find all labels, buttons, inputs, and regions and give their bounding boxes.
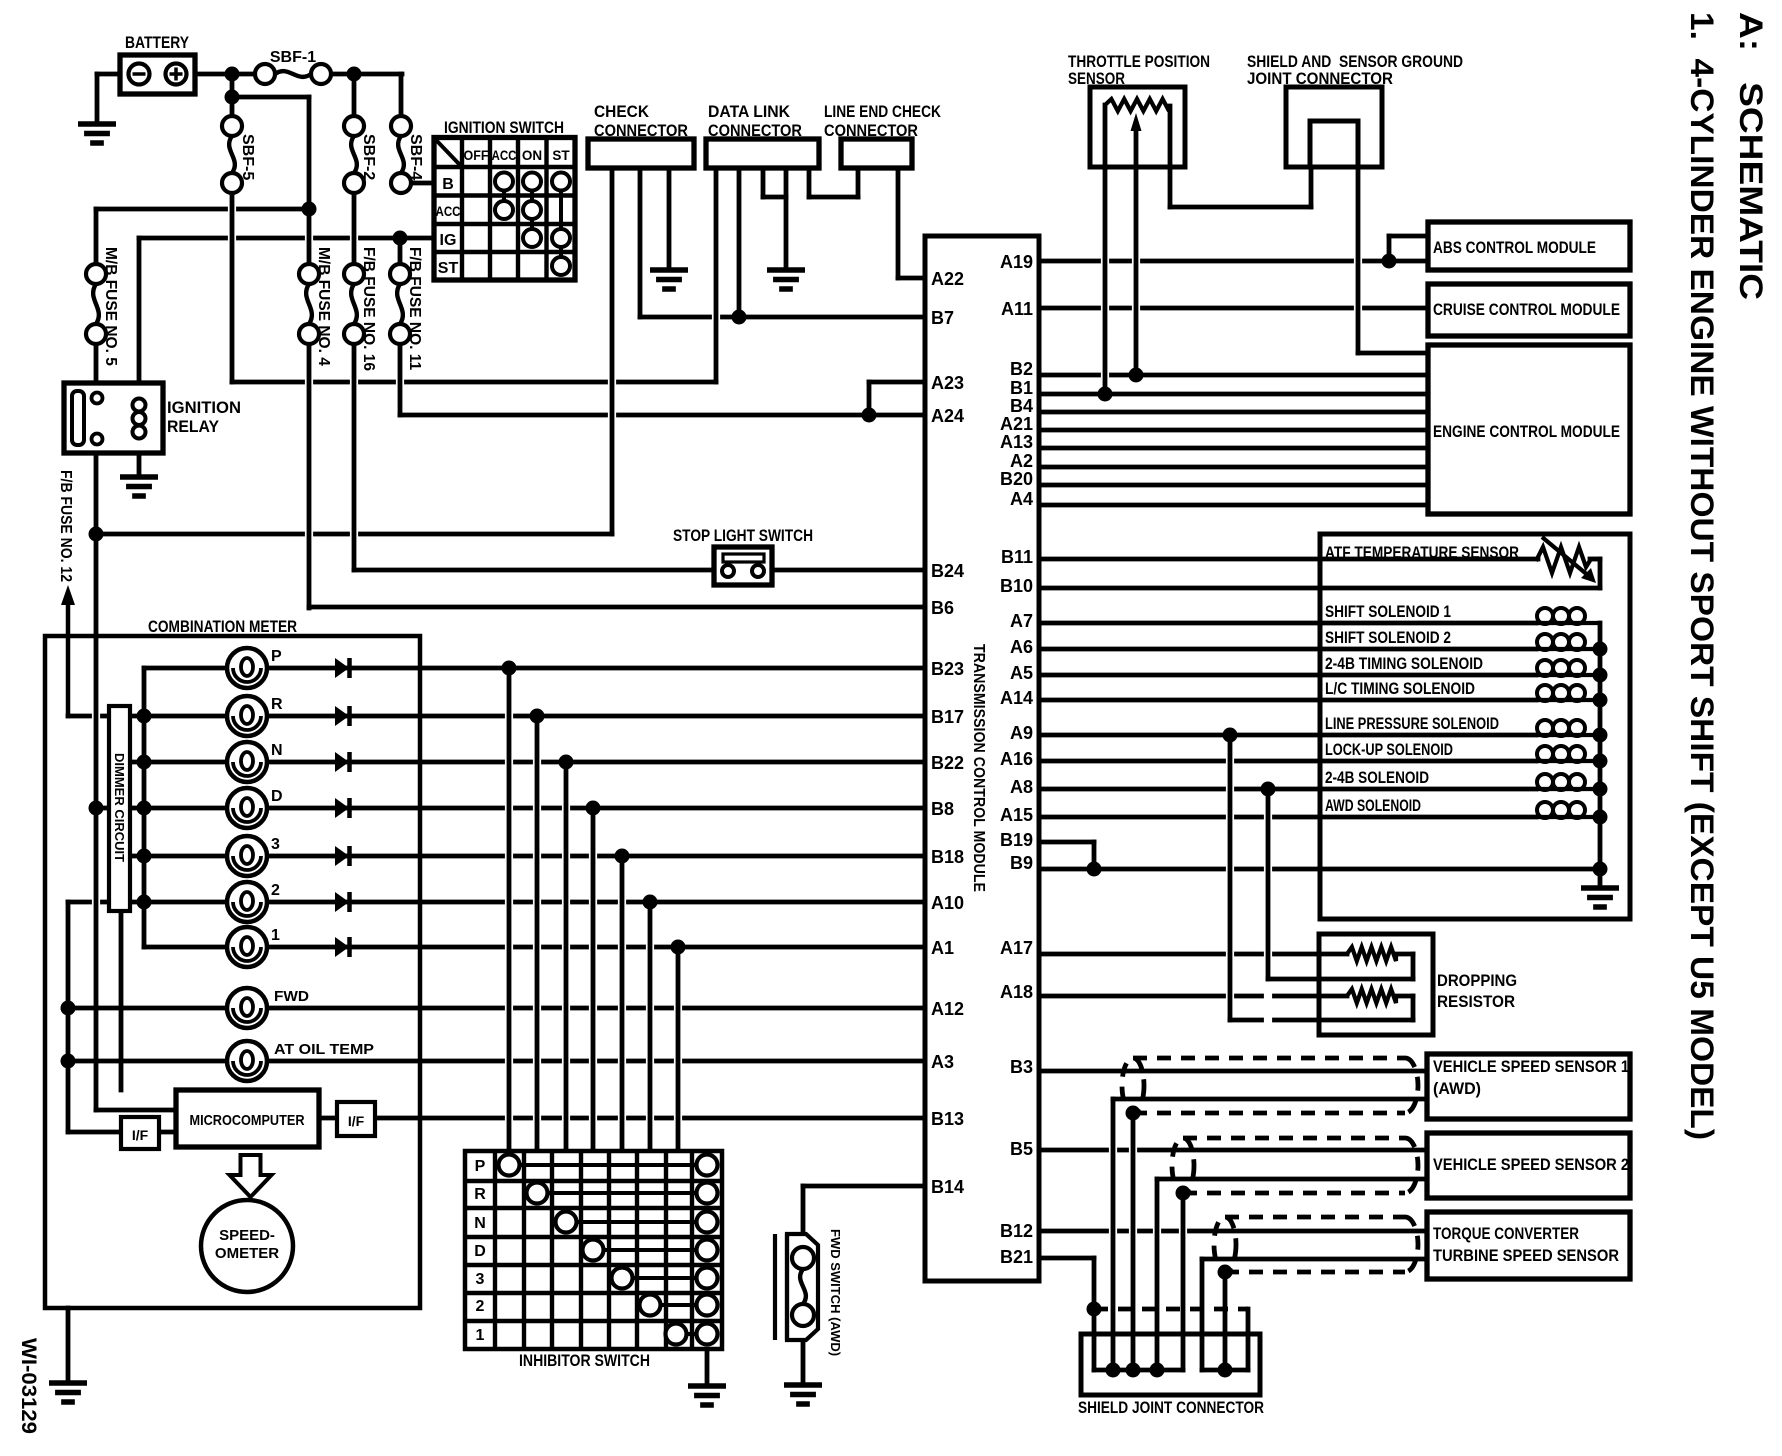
svg-text:F/B FUSE NO. 11: F/B FUSE NO. 11 [406,247,423,371]
svg-text:D: D [474,1243,486,1260]
svg-text:DIMMER CIRCUIT: DIMMER CIRCUIT [112,753,127,862]
svg-text:2-4B SOLENOID: 2-4B SOLENOID [1325,768,1429,787]
svg-text:B10: B10 [1000,576,1033,596]
svg-text:ST: ST [438,260,459,277]
svg-text:A22: A22 [931,269,964,289]
svg-text:INHIBITOR SWITCH: INHIBITOR SWITCH [519,1351,650,1370]
svg-text:AT OIL TEMP: AT OIL TEMP [274,1041,374,1058]
svg-text:B6: B6 [931,598,954,618]
svg-text:ATF TEMPERATURE SENSOR: ATF TEMPERATURE SENSOR [1325,543,1519,562]
svg-text:COMBINATION METER: COMBINATION METER [148,617,297,636]
svg-text:B9: B9 [1010,853,1033,873]
svg-text:OFF: OFF [464,148,489,163]
svg-text:B18: B18 [931,847,964,867]
svg-text:(AWD): (AWD) [1433,1079,1481,1098]
svg-text:SBF-4: SBF-4 [407,134,424,180]
svg-text:AWD SOLENOID: AWD SOLENOID [1325,796,1421,815]
svg-text:TURBINE SPEED SENSOR: TURBINE SPEED SENSOR [1433,1246,1619,1265]
svg-text:CONNECTOR: CONNECTOR [824,121,918,140]
svg-text:ACC: ACC [492,148,517,163]
svg-text:A8: A8 [1010,777,1033,797]
svg-text:A7: A7 [1010,611,1033,631]
svg-text:F/B FUSE NO. 16: F/B FUSE NO. 16 [360,247,377,371]
svg-text:A16: A16 [1000,749,1033,769]
svg-text:CRUISE CONTROL MODULE: CRUISE CONTROL MODULE [1433,300,1620,319]
svg-text:LOCK-UP SOLENOID: LOCK-UP SOLENOID [1325,740,1453,759]
svg-text:SBF-1: SBF-1 [270,49,316,66]
svg-text:A14: A14 [1000,688,1033,708]
svg-text:A19: A19 [1000,252,1033,272]
svg-text:SHIFT SOLENOID 2: SHIFT SOLENOID 2 [1325,628,1451,647]
svg-text:A17: A17 [1000,938,1033,958]
svg-text:F/B FUSE NO. 12: F/B FUSE NO. 12 [57,470,74,582]
svg-text:RELAY: RELAY [167,417,220,436]
svg-text:I/F: I/F [132,1127,149,1143]
svg-text:B1: B1 [1010,378,1033,398]
svg-text:A5: A5 [1010,663,1033,683]
svg-text:1: 1 [271,927,280,944]
svg-text:M/B FUSE NO. 5: M/B FUSE NO. 5 [102,247,119,366]
svg-text:LINE PRESSURE SOLENOID: LINE PRESSURE SOLENOID [1325,714,1499,733]
svg-text:ENGINE CONTROL MODULE: ENGINE CONTROL MODULE [1433,422,1620,441]
svg-text:IGNITION SWITCH: IGNITION SWITCH [444,118,564,137]
svg-text:FWD: FWD [274,988,309,1005]
svg-text:SBF-5: SBF-5 [239,134,256,180]
svg-text:A21: A21 [1000,414,1033,434]
svg-text:B11: B11 [1001,547,1033,567]
svg-text:A2: A2 [1010,451,1033,471]
svg-text:A11: A11 [1001,299,1033,319]
svg-text:SHIELD JOINT CONNECTOR: SHIELD JOINT CONNECTOR [1078,1398,1264,1417]
svg-text:SHIFT SOLENOID 1: SHIFT SOLENOID 1 [1325,602,1451,621]
svg-text:TORQUE CONVERTER: TORQUE CONVERTER [1433,1224,1579,1243]
svg-text:CONNECTOR: CONNECTOR [594,121,688,140]
svg-text:D: D [271,788,283,805]
svg-text:VEHICLE SPEED SENSOR 1: VEHICLE SPEED SENSOR 1 [1433,1057,1629,1076]
svg-text:B20: B20 [1000,469,1033,489]
svg-text:VEHICLE SPEED SENSOR 2: VEHICLE SPEED SENSOR 2 [1433,1155,1629,1174]
svg-text:ACC: ACC [436,204,461,219]
svg-text:A3: A3 [931,1052,954,1072]
svg-text:FWD SWITCH (AWD): FWD SWITCH (AWD) [828,1229,843,1356]
svg-text:OMETER: OMETER [215,1245,279,1262]
svg-text:B8: B8 [931,799,954,819]
svg-text:LINE END CHECK: LINE END CHECK [824,102,942,121]
svg-text:N: N [474,1215,486,1232]
svg-text:B19: B19 [1000,830,1033,850]
svg-text:A18: A18 [1000,982,1033,1002]
svg-text:P: P [475,1158,486,1175]
svg-text:WI-03129: WI-03129 [17,1338,40,1434]
svg-text:IGNITION: IGNITION [167,398,241,417]
svg-text:CONNECTOR: CONNECTOR [708,121,802,140]
svg-text:BATTERY: BATTERY [125,33,190,52]
svg-text:A4: A4 [1010,489,1033,509]
svg-text:A24: A24 [931,406,964,426]
svg-text:B21: B21 [1000,1247,1033,1267]
svg-text:B5: B5 [1010,1139,1033,1159]
svg-text:DATA LINK: DATA LINK [708,102,791,121]
svg-text:B23: B23 [931,659,964,679]
svg-text:1: 1 [476,1327,485,1344]
svg-text:2-4B TIMING SOLENOID: 2-4B TIMING SOLENOID [1325,654,1483,673]
svg-text:2: 2 [271,882,280,899]
svg-text:RESISTOR: RESISTOR [1437,992,1515,1011]
svg-text:TRANSMISSION CONTROL MODULE: TRANSMISSION CONTROL MODULE [970,644,987,892]
svg-text:B14: B14 [931,1177,964,1197]
svg-text:A10: A10 [931,893,964,913]
svg-text:SPEED-: SPEED- [219,1227,275,1244]
svg-text:A1: A1 [931,938,954,958]
svg-text:3: 3 [476,1271,485,1288]
svg-text:A15: A15 [1000,805,1033,825]
svg-text:B13: B13 [931,1109,964,1129]
svg-text:SBF-2: SBF-2 [360,134,377,180]
svg-text:R: R [271,696,283,713]
svg-text:B: B [442,176,454,193]
svg-text:B4: B4 [1010,396,1033,416]
svg-text:B24: B24 [931,561,964,581]
svg-text:MICROCOMPUTER: MICROCOMPUTER [190,1112,305,1129]
svg-text:M/B FUSE NO. 4: M/B FUSE NO. 4 [315,247,332,366]
svg-text:B22: B22 [931,753,964,773]
svg-text:ON: ON [522,148,542,163]
svg-text:CHECK: CHECK [594,102,650,121]
svg-text:STOP LIGHT SWITCH: STOP LIGHT SWITCH [673,526,813,545]
svg-text:B2: B2 [1010,359,1033,379]
svg-text:N: N [271,742,283,759]
svg-text:3: 3 [271,836,280,853]
svg-text:R: R [474,1186,486,1203]
svg-text:B12: B12 [1000,1221,1033,1241]
svg-text:1. 4-CYLINDER ENGINE WITHOUT: 1. 4-CYLINDER ENGINE WITHOUT SPORT SHIFT… [1684,12,1720,1140]
svg-text:ABS CONTROL MODULE: ABS CONTROL MODULE [1433,238,1596,257]
svg-text:L/C TIMING SOLENOID: L/C TIMING SOLENOID [1325,679,1475,698]
svg-text:DROPPING: DROPPING [1437,971,1517,990]
svg-text:ST: ST [552,148,570,163]
svg-text:P: P [271,648,282,665]
svg-text:A12: A12 [931,999,964,1019]
svg-text:B17: B17 [931,707,964,727]
svg-text:A23: A23 [931,373,964,393]
svg-text:A: SCHEMATIC: A: SCHEMATIC [1733,12,1769,300]
svg-text:A6: A6 [1010,637,1033,657]
svg-text:A9: A9 [1010,723,1033,743]
svg-text:JOINT CONNECTOR: JOINT CONNECTOR [1247,69,1393,88]
svg-text:A13: A13 [1000,432,1033,452]
svg-text:B7: B7 [931,308,954,328]
svg-text:IG: IG [440,232,457,249]
svg-text:B3: B3 [1010,1057,1033,1077]
svg-text:SENSOR: SENSOR [1068,69,1125,88]
svg-text:I/F: I/F [348,1113,365,1129]
svg-text:2: 2 [476,1298,485,1315]
